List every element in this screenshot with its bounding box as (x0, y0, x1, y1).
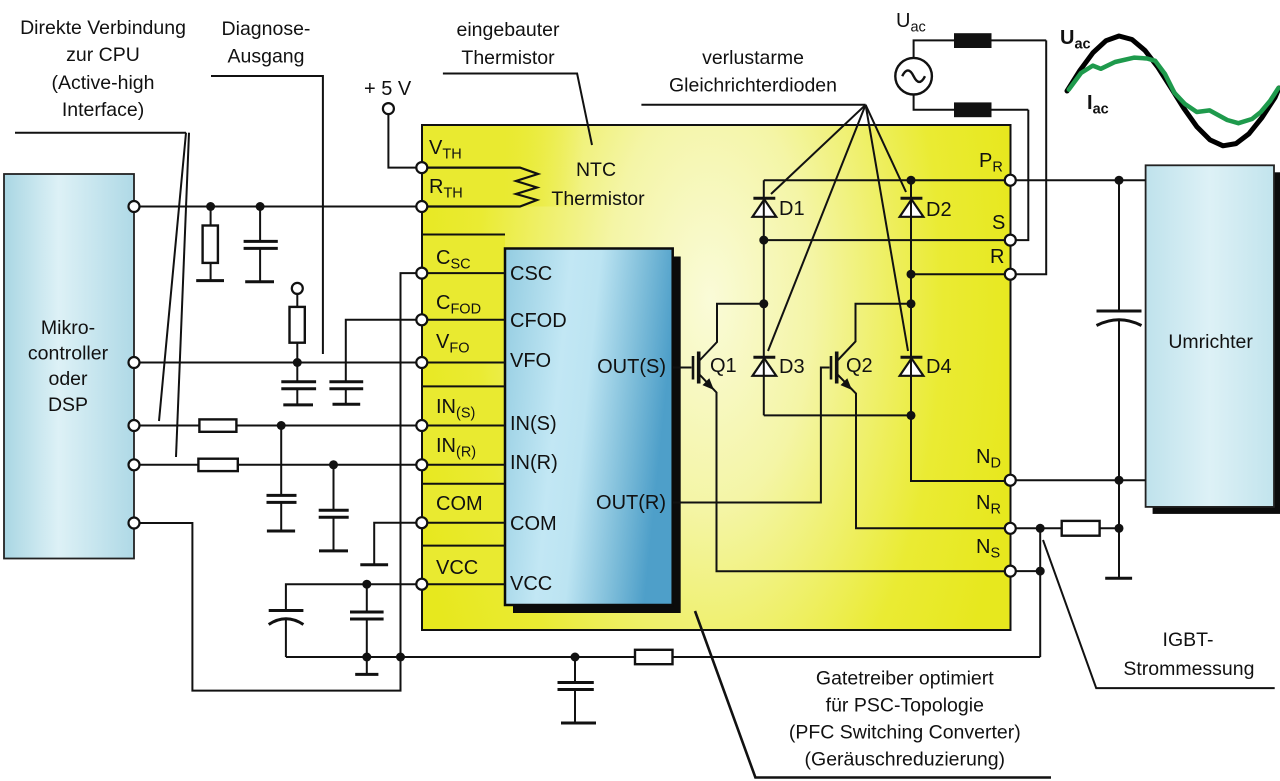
Q1 collector wire (700, 304, 764, 361)
EMI block bottom (954, 102, 992, 117)
callout line Diagnose (211, 76, 323, 354)
C4 plates (267, 494, 297, 497)
pin band CSC (423, 235, 505, 274)
source bottom lead (914, 95, 1029, 110)
svg-text:D4: D4 (926, 356, 952, 378)
annotation: eingebauter Thermistor (456, 19, 560, 69)
svg-text:Ausgang: Ausgang (228, 46, 305, 68)
svg-text:Strommessung: Strommessung (1123, 658, 1254, 680)
svg-text:IN(R): IN(R) (510, 452, 558, 474)
EMI block top (954, 33, 992, 48)
R1 branch upper (210, 207, 212, 226)
node lower rail / D4 branch (907, 411, 916, 420)
Q2 collector wire (838, 304, 912, 361)
wire CSC pin to IC (422, 272, 505, 274)
annotation: IGBT-Strommessung (1123, 629, 1254, 680)
annotation: Diagnose-Ausgang (222, 18, 311, 68)
wire IN(R) net (134, 464, 422, 466)
wire IN(S) net (134, 425, 422, 427)
svg-text:CSC: CSC (510, 263, 552, 285)
DC bus capacitor C10 (electrolytic) (1097, 311, 1142, 326)
shunt resistor R5 (1062, 521, 1100, 536)
svg-text:+ 5 V: + 5 V (364, 78, 412, 100)
diode D1 symbol (753, 198, 777, 217)
annotation: verlustarme Gleichrichterdioden (669, 47, 837, 97)
pin band IN(S) (423, 386, 505, 425)
C5 lower to ground (333, 517, 335, 551)
transistor Q2 (IGBT) (831, 352, 852, 391)
callout line CPU to IN(S) (159, 133, 186, 421)
AC source Uac (895, 58, 932, 95)
wire CSC net down to bus (401, 273, 422, 657)
wire NR node down to bus (1039, 528, 1041, 657)
node ND / DC minus (1115, 476, 1124, 485)
callout line to D2 (866, 105, 906, 192)
terminal COM (416, 517, 427, 528)
wire ND to Umrichter (1010, 479, 1145, 481)
C1 branch upper (259, 207, 261, 242)
bridge top rail to PR (764, 179, 1011, 181)
bridge left branch (D1/D3) (763, 180, 765, 415)
R1 branch lower to ground (210, 263, 212, 281)
pin band RTH (423, 168, 583, 207)
callout line Thermistor (443, 74, 592, 146)
junction dots left area (206, 202, 579, 662)
terminal ND (1005, 475, 1016, 486)
wire NR to shunt (1010, 527, 1061, 529)
C2 plates (281, 380, 316, 383)
pin band COM (423, 484, 505, 523)
terminal R (1005, 269, 1016, 280)
MCU ground link (134, 523, 401, 691)
source top lead (914, 40, 1047, 58)
terminal +5V (383, 103, 394, 114)
terminal NR (1005, 523, 1016, 534)
C5 plates (319, 509, 349, 512)
pin band CFOD (423, 273, 505, 320)
svg-text:IN(S): IN(S) (510, 413, 557, 435)
terminal RTH (416, 201, 427, 212)
main power module (yellow) (422, 125, 1011, 630)
wire VFO pin to IC (422, 362, 505, 364)
wire +5V to VTH (388, 114, 421, 168)
wire NS to node (1010, 570, 1040, 572)
node bus/C8 (571, 653, 580, 662)
junction dots inside module (759, 176, 915, 420)
C5 branch upper (333, 465, 335, 510)
terminal CFOD (416, 314, 427, 325)
terminal MCU IN(S) (129, 420, 140, 431)
C1 lower to ground (259, 248, 261, 281)
C7 lower to bus (366, 619, 368, 657)
pin box border above IN(S) (422, 385, 505, 387)
svg-text:COM: COM (436, 493, 483, 515)
terminal IN(S) (416, 420, 427, 431)
node Q2 collector (907, 299, 916, 308)
node VFO/R2 (293, 358, 302, 367)
svg-text:VFO: VFO (510, 350, 551, 372)
pull-up resistor stub (296, 294, 298, 307)
svg-text:D3: D3 (779, 356, 805, 378)
C6 electrolytic plates (269, 609, 304, 612)
svg-text:Thermistor: Thermistor (551, 188, 645, 210)
wire VCC net (286, 584, 422, 610)
wire PR to Umrichter (1010, 179, 1145, 181)
svg-text:Umrichter: Umrichter (1168, 331, 1253, 353)
svg-text:IGBT-: IGBT- (1163, 629, 1214, 651)
Iac current curve (green) (1069, 58, 1279, 124)
R rail (911, 273, 1010, 275)
diode D2 symbol (900, 198, 924, 217)
DC bus cap lower wire (1118, 320, 1120, 579)
pin band IN(R) (423, 426, 505, 465)
svg-text:OUT(R): OUT(R) (596, 492, 666, 514)
diode D3 symbol (753, 357, 777, 376)
svg-text:eingebauter: eingebauter (456, 19, 560, 41)
terminal VFO (416, 357, 427, 368)
thermistor RT1 (NTC) (422, 168, 538, 207)
terminal CSC (416, 268, 427, 279)
pin box border above COM (422, 483, 505, 485)
node shunt / DC minus (1115, 524, 1124, 533)
node bus/C7 (362, 653, 371, 662)
wire COM pin to IC (422, 522, 505, 524)
ground bar R1 (196, 279, 224, 282)
svg-text:VCC: VCC (436, 557, 478, 579)
svg-text:verlustarme: verlustarme (702, 47, 804, 69)
node PR / DC cap (1115, 176, 1124, 185)
node S rail / D1 branch (759, 236, 768, 245)
wire CFOD net (346, 320, 422, 382)
C6 lower to bus (285, 619, 287, 658)
node IN(R)/C5 (329, 460, 338, 469)
resistor R2 (diag pull-up) (290, 307, 305, 343)
callout line IGBT (1043, 540, 1275, 688)
svg-text:Uac: Uac (1060, 27, 1091, 53)
svg-text:NTC: NTC (576, 159, 616, 181)
ground bar right (1105, 577, 1132, 580)
callout line Gatetreiber (695, 611, 1051, 778)
wire COM to ground (374, 523, 422, 565)
common bus wire (286, 656, 1040, 658)
S rail (764, 239, 1011, 241)
ND wire from bridge (911, 415, 1010, 481)
wire CFOD pin to IC (422, 319, 505, 321)
svg-text:(Active-high: (Active-high (52, 72, 155, 94)
terminal PR (1005, 175, 1016, 186)
C3 plates (329, 380, 363, 383)
ground bar C5 (319, 549, 348, 552)
resistor R1 (RTH pull-down) (203, 226, 218, 263)
terminal VTH (416, 162, 427, 173)
OUT(R) wire to Q2 gate (673, 368, 830, 503)
callout line to D4 (866, 105, 908, 351)
terminal VCC (416, 579, 427, 590)
svg-text:Interface): Interface) (62, 99, 144, 121)
ground bar C1 (245, 280, 274, 283)
node NR / sense (1036, 524, 1045, 533)
svg-text:S: S (992, 212, 1005, 234)
pin box border above VCC (422, 545, 505, 547)
resistor R3 (IN(S) series) (199, 419, 236, 431)
callout line to D1 (771, 105, 866, 194)
node RTH/C1 (256, 202, 265, 211)
gate driver IC shadow (513, 257, 681, 614)
Q2 emitter wire to NR (838, 375, 1011, 529)
svg-text:CFOD: CFOD (510, 310, 567, 332)
svg-text:Direkte Verbindung: Direkte Verbindung (20, 17, 186, 39)
pin box border above CSC (422, 234, 505, 236)
pin band VTH (423, 126, 583, 168)
C3 lower to ground (345, 389, 347, 405)
svg-text:VCC: VCC (510, 573, 552, 595)
pin band VFO (423, 320, 505, 363)
ground bar C8 (561, 722, 596, 725)
terminal MCU IN(R) (129, 459, 140, 470)
pull-up lower wire (296, 343, 298, 363)
svg-text:COM: COM (510, 513, 557, 535)
ground bar bus (355, 673, 378, 676)
resistor R6 (bus series) (635, 650, 673, 664)
svg-text:D2: D2 (926, 199, 952, 221)
callout underline dioden (641, 104, 865, 106)
terminal diag pull-up top (292, 283, 303, 294)
svg-text:Q1: Q1 (710, 355, 737, 377)
C8 branch below bus (574, 657, 576, 683)
wire VCC pin to IC (422, 583, 505, 585)
wire RTH net MCU to module (134, 206, 422, 208)
svg-text:Gleichrichterdioden: Gleichrichterdioden (669, 75, 837, 97)
Q1 emitter wire to NS (700, 375, 1011, 572)
annotation: Direkte Verbindung zur CPU (20, 17, 186, 121)
node VCC/C7 (362, 580, 371, 589)
bridge lower rail (764, 414, 911, 416)
ground bar C3 (333, 403, 361, 406)
terminal NS (1005, 566, 1016, 577)
svg-text:OUT(S): OUT(S) (597, 356, 666, 378)
wire VFO net MCU to module (134, 362, 422, 364)
junction dots right area (1036, 176, 1124, 576)
Umrichter shadow (1153, 172, 1280, 514)
wire IN(R) pin to IC (422, 464, 505, 466)
OUT(S) stub to Q1 gate (673, 367, 692, 369)
C7 plates (350, 611, 384, 614)
svg-text:Thermistor: Thermistor (461, 47, 555, 69)
wire R to source top (1010, 40, 1046, 274)
terminal S (1005, 235, 1016, 246)
svg-text:Uac: Uac (896, 10, 926, 36)
svg-text:zur CPU: zur CPU (66, 44, 140, 66)
annotation: Gatetreiber optimiert (789, 668, 1021, 771)
C4 lower to ground (280, 502, 282, 531)
svg-text:Diagnose-: Diagnose- (222, 18, 311, 40)
node NS / sense (1036, 567, 1045, 576)
node bus/CSC (396, 653, 405, 662)
svg-text:oder: oder (48, 368, 88, 390)
svg-text:D1: D1 (779, 198, 805, 220)
svg-text:(Geräuschreduzierung): (Geräuschreduzierung) (805, 749, 1006, 771)
ground bar COM (360, 563, 388, 566)
callout underline CPU (15, 132, 186, 134)
svg-text:controller: controller (28, 343, 109, 365)
gate driver IC U1 (505, 249, 673, 606)
C2 branch upper (296, 363, 298, 382)
svg-text:R: R (990, 246, 1004, 268)
svg-text:für PSC-Topologie: für PSC-Topologie (826, 695, 984, 717)
node RTH/R1 (206, 202, 215, 211)
terminal MCU RTH (129, 201, 140, 212)
C8 plates (558, 681, 594, 684)
ground stub below bus (366, 657, 368, 674)
node IN(S)/C4 (277, 421, 286, 430)
wire shunt to DC minus (1100, 527, 1119, 529)
terminal MCU gnd (129, 518, 140, 529)
svg-text:Iac: Iac (1087, 92, 1109, 118)
svg-text:DSP: DSP (48, 394, 88, 416)
wire S to source bottom (1010, 110, 1028, 240)
resistor R4 (IN(R) series) (198, 459, 237, 471)
DC bus cap upper wire (1118, 180, 1120, 311)
diode D4 symbol (900, 357, 924, 376)
node R rail / D2 branch (907, 270, 916, 279)
svg-text:Gatetreiber optimiert: Gatetreiber optimiert (816, 668, 994, 690)
pin band VCC (423, 546, 505, 585)
microcontroller box (4, 174, 134, 559)
C2 lower to ground (296, 389, 298, 405)
terminal MCU VFO (129, 357, 140, 368)
svg-text:Q2: Q2 (846, 355, 873, 377)
node Q1 collector (759, 299, 768, 308)
terminal circles (129, 103, 1016, 590)
transistor Q1 (IGBT) (693, 352, 714, 391)
terminal IN(R) (416, 459, 427, 470)
callout line to D3 (768, 105, 866, 351)
svg-text:(PFC Switching Converter): (PFC Switching Converter) (789, 722, 1021, 744)
Uac sine curve (1067, 36, 1279, 146)
C1 plates (244, 240, 278, 243)
C7 branch upper (366, 584, 368, 612)
C8 lower to ground (574, 690, 576, 724)
ground bar C2 (283, 403, 313, 406)
Umrichter box (1146, 165, 1274, 507)
callout line CPU to IN(R) (176, 133, 189, 457)
svg-text:Mikro-: Mikro- (41, 317, 95, 339)
ground bar C4 (267, 530, 295, 533)
node top rail / D2 branch (907, 176, 916, 185)
C4 branch upper (280, 426, 282, 496)
bridge right branch (D2/D4) (910, 180, 912, 415)
wire IN(S) pin to IC (422, 425, 505, 427)
